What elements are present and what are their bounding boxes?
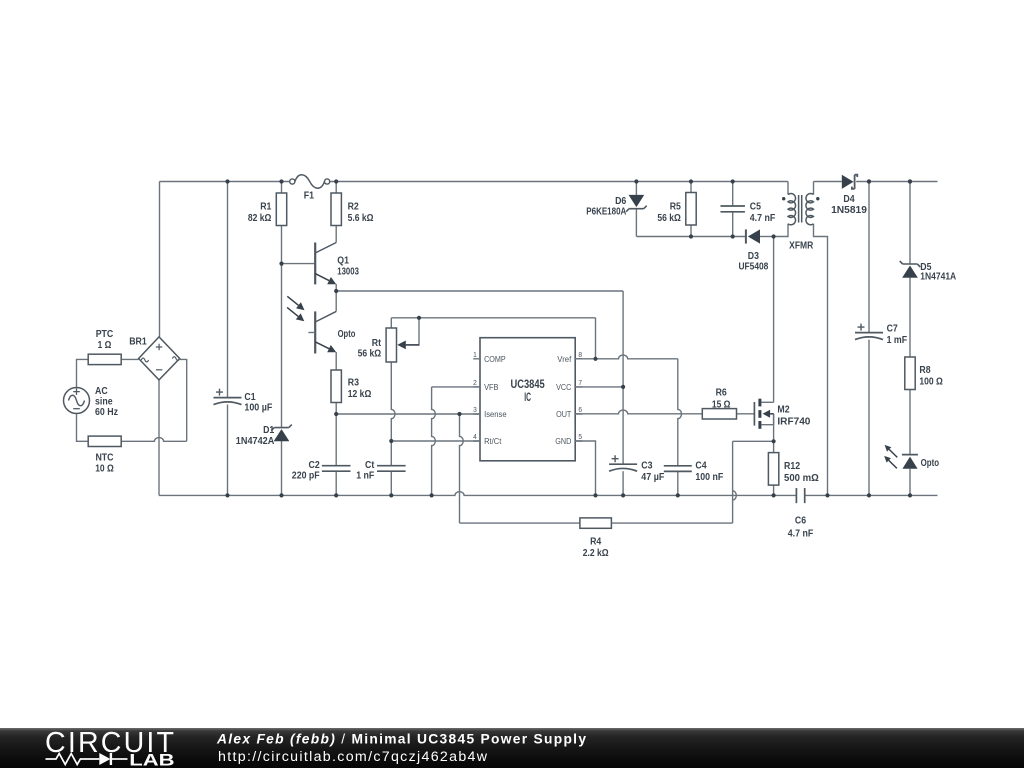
junction dot Rt wiper — [417, 316, 421, 320]
footer title — [216, 732, 586, 747]
resistor R2 — [331, 193, 374, 226]
resistor NTC — [88, 436, 121, 474]
transistor Q1 — [315, 243, 359, 285]
wire secondary top lead — [813, 182, 815, 195]
svg-text:C4: C4 — [695, 461, 707, 472]
wire Q1 emitter row — [336, 290, 623, 292]
svg-text:R6: R6 — [716, 387, 728, 398]
junction dot M2 source node — [772, 439, 776, 443]
svg-text:R8: R8 — [919, 365, 931, 376]
wire opto emitter to R3 — [335, 352, 337, 370]
wire C7 column — [868, 182, 870, 496]
pin 4 Rt/Ct — [473, 432, 502, 446]
wire BR1 bottom to bottom rail — [158, 380, 160, 496]
opto transistor — [308, 311, 355, 353]
zener diode D5 — [900, 261, 957, 282]
svg-text:1: 1 — [473, 350, 477, 359]
svg-text:100 µF: 100 µF — [244, 402, 272, 413]
svg-text:1N4742A: 1N4742A — [236, 436, 275, 447]
svg-text:http://circuitlab.com/c7qczj46: http://circuitlab.com/c7qczj462ab4w — [218, 749, 488, 765]
LED opto diode — [902, 455, 939, 470]
svg-text:7: 7 — [578, 378, 582, 387]
svg-text:M2: M2 — [777, 405, 790, 416]
svg-text:BR1: BR1 — [129, 337, 147, 348]
potentiometer Rt — [358, 328, 419, 362]
wire R1 to Q1 base — [282, 263, 316, 265]
zener diode D1 — [236, 425, 292, 447]
wire R2 leads — [335, 182, 337, 243]
svg-text:COMP: COMP — [484, 355, 506, 364]
svg-text:1 nF: 1 nF — [356, 470, 374, 481]
svg-text:R1: R1 — [260, 202, 272, 213]
svg-text:5.6 kΩ: 5.6 kΩ — [348, 213, 374, 224]
capacitor C4 — [664, 461, 724, 484]
svg-text:56 kΩ: 56 kΩ — [358, 349, 382, 360]
svg-text:82 kΩ: 82 kΩ — [248, 213, 272, 224]
wire R1 leads — [281, 182, 283, 264]
wire D3 anode to drain node — [760, 236, 774, 238]
svg-text:4: 4 — [473, 432, 477, 441]
junction dot VCC node — [621, 385, 625, 389]
svg-text:UC3845: UC3845 — [510, 379, 545, 391]
svg-text:XFMR: XFMR — [789, 241, 814, 252]
wire R4 riser to M2 source — [733, 441, 774, 523]
wire C3 bottom lead — [622, 471, 624, 495]
footer bar — [0, 728, 1024, 768]
wire C2 leads — [335, 414, 337, 495]
svg-text:1N5819: 1N5819 — [831, 205, 867, 216]
svg-text:LAB: LAB — [129, 751, 174, 768]
zener diode D6 — [586, 195, 646, 217]
resistor PTC — [88, 329, 121, 365]
svg-text:Opto: Opto — [338, 329, 356, 340]
wire bottom rail secondary side — [805, 494, 938, 496]
svg-text:Rt: Rt — [372, 338, 382, 349]
pin 3 Isense — [473, 405, 507, 419]
wire M2 drain column — [773, 237, 775, 403]
wire bottom rail primary side — [159, 492, 796, 496]
junction dots snubber row — [689, 234, 776, 238]
pin 1 COMP — [473, 350, 506, 364]
svg-text:1 Ω: 1 Ω — [98, 340, 112, 351]
svg-text:Vref: Vref — [557, 355, 572, 364]
pin 8 Vref — [557, 350, 582, 364]
wire Rt wiper link — [403, 318, 419, 345]
svg-text:D3: D3 — [748, 251, 760, 262]
wire R4 row — [460, 522, 733, 524]
capacitor C3 — [609, 455, 664, 483]
svg-text:R3: R3 — [348, 377, 360, 388]
svg-text:AC: AC — [95, 386, 108, 397]
svg-text:C1: C1 — [244, 392, 256, 403]
junction dot Q1 emitter node — [334, 289, 338, 293]
wire Isense row — [336, 413, 480, 415]
resistor R4 — [580, 518, 612, 559]
svg-text:P6KE180A: P6KE180A — [586, 206, 626, 217]
pin 5 GND — [555, 432, 582, 446]
wire M2 source to R12 — [773, 414, 775, 453]
wire OUT row — [575, 410, 702, 414]
svg-text:10 Ω: 10 Ω — [95, 463, 114, 474]
resistor R6 — [702, 387, 736, 419]
junction dots secondary top — [867, 179, 912, 183]
capacitor C1 — [214, 389, 273, 414]
svg-text:Isense: Isense — [484, 410, 507, 419]
diode D3 — [738, 229, 768, 272]
wire primary bottom lead — [774, 224, 788, 237]
junction dot RtCt node — [389, 439, 393, 443]
svg-text:C3: C3 — [641, 461, 653, 472]
LED light arrows — [884, 445, 897, 469]
svg-text:2.2 kΩ: 2.2 kΩ — [583, 548, 609, 559]
svg-text:PTC: PTC — [96, 329, 114, 340]
svg-text:D4: D4 — [843, 194, 855, 205]
svg-text:100 nF: 100 nF — [695, 472, 723, 483]
pin 6 OUT — [556, 405, 582, 419]
opto light arrows — [287, 296, 304, 321]
wire Isense to R4 column — [460, 414, 464, 523]
capacitor C7 — [855, 323, 907, 346]
svg-text:100 Ω: 100 Ω — [919, 376, 943, 387]
wire primary top lead — [787, 182, 789, 195]
wire top rail (AC bus) — [160, 181, 789, 183]
svg-text:C6: C6 — [795, 516, 807, 527]
fuse F1 — [290, 175, 330, 202]
svg-text:GND: GND — [555, 437, 571, 446]
svg-text:UF5408: UF5408 — [738, 262, 768, 273]
resistor R1 — [248, 193, 287, 226]
capacitor C6 — [788, 488, 813, 539]
svg-text:D1: D1 — [263, 425, 275, 436]
wire D5 R8 opto chain — [909, 182, 911, 496]
svg-text:R4: R4 — [590, 537, 602, 548]
svg-text:F1: F1 — [304, 191, 315, 202]
wire AC source to PTC — [77, 359, 89, 387]
svg-text:4.7 nF: 4.7 nF — [788, 528, 813, 539]
capacitor C2 — [292, 460, 351, 481]
svg-text:IC: IC — [524, 392, 531, 404]
junction dot Vref node — [593, 357, 597, 361]
svg-text:8: 8 — [578, 350, 582, 359]
svg-text:sine: sine — [95, 397, 113, 408]
svg-text:1N4741A: 1N4741A — [920, 271, 956, 282]
CircuitLab logo resistor-diode glyph — [46, 753, 128, 765]
resistor R5 — [657, 193, 696, 226]
svg-text:6: 6 — [578, 405, 582, 414]
wire NTC to BR1 right — [121, 359, 187, 441]
svg-text:15 Ω: 15 Ω — [712, 399, 731, 410]
transformer XFMR — [782, 193, 820, 251]
svg-text:R12: R12 — [784, 461, 800, 472]
wire snubber bottom row — [636, 236, 746, 238]
svg-text:13003: 13003 — [337, 267, 359, 278]
svg-text:IRF740: IRF740 — [777, 416, 810, 427]
svg-text:60 Hz: 60 Hz — [95, 407, 118, 418]
svg-text:OUT: OUT — [556, 410, 571, 419]
svg-text:Alex Feb (febb) / Minimal UC38: Alex Feb (febb) / Minimal UC3845 Power S… — [216, 732, 586, 747]
svg-text:C7: C7 — [887, 323, 899, 334]
junction dots bottom rail — [225, 493, 912, 497]
wire R5 leads — [690, 182, 692, 237]
svg-text:Rt/Ct: Rt/Ct — [484, 437, 502, 446]
svg-text:VCC: VCC — [556, 383, 571, 392]
wire Vref row to C4 — [575, 355, 681, 466]
svg-text:NTC: NTC — [95, 453, 113, 464]
wire GND pin to ground — [575, 441, 595, 495]
wire D1 column — [281, 264, 283, 496]
CircuitLab logo text — [45, 727, 174, 759]
transistor M2 IRF740 — [754, 399, 810, 429]
svg-text:C5: C5 — [750, 202, 762, 213]
op-amp U1 UC3845 IC box — [473, 338, 582, 461]
wire PTC to BR1 — [121, 358, 138, 360]
capacitor C5 — [720, 202, 775, 224]
junction dots top rail — [225, 179, 912, 183]
svg-text:VFB: VFB — [484, 383, 499, 392]
wire secondary return — [814, 224, 828, 496]
wire C1 column — [227, 182, 229, 496]
wire Rt-Vref row — [391, 318, 595, 359]
resistor R3 — [331, 370, 371, 403]
wire Rt top lead — [390, 318, 392, 328]
svg-text:R5: R5 — [670, 202, 682, 213]
junction dots Isense row — [334, 412, 462, 416]
AC source V1 — [64, 386, 119, 418]
wire R3 lead bottom — [335, 403, 337, 415]
svg-text:47 µF: 47 µF — [641, 472, 664, 483]
svg-text:1 mF: 1 mF — [887, 335, 908, 346]
svg-text:2: 2 — [473, 378, 477, 387]
svg-text:R2: R2 — [348, 202, 360, 213]
resistor R12 — [768, 453, 818, 486]
diode D4 schottky — [831, 175, 867, 217]
svg-text:Opto: Opto — [921, 458, 940, 469]
svg-text:500 mΩ: 500 mΩ — [784, 473, 819, 484]
wire left rail down to BR1 top — [159, 182, 161, 337]
pin 7 VCC — [556, 378, 582, 392]
wire VCC row — [575, 386, 623, 388]
resistor R8 — [905, 357, 943, 390]
svg-text:56 kΩ: 56 kΩ — [657, 213, 681, 224]
wire secondary top rail — [814, 181, 938, 183]
svg-text:Q1: Q1 — [337, 256, 349, 267]
wire R6 to gate — [737, 413, 755, 415]
svg-text:220 pF: 220 pF — [292, 470, 320, 481]
wire R12 bottom lead — [773, 485, 775, 495]
svg-text:3: 3 — [473, 405, 477, 414]
wire D6 leads — [635, 182, 637, 237]
wire Q1 emitter to opto collector — [335, 284, 337, 311]
wire Rt bottom / Ct column — [391, 362, 395, 495]
CircuitLab logo LAB — [129, 751, 174, 768]
pin 2 VFB — [473, 378, 499, 392]
svg-text:12 kΩ: 12 kΩ — [348, 389, 372, 400]
wire RtCt row — [391, 440, 480, 442]
bridge rectifier BR1 — [129, 337, 180, 380]
capacitor Ct — [356, 460, 405, 481]
wire C5 leads — [732, 182, 734, 237]
wire C4 bottom lead — [677, 471, 679, 495]
svg-text:D6: D6 — [615, 196, 627, 207]
footer url — [218, 749, 488, 765]
junction dot R1-Q1 base — [279, 262, 283, 266]
wire AC source to NTC — [77, 414, 89, 442]
wire VFB ground column — [432, 387, 480, 496]
svg-text:4.7 nF: 4.7 nF — [750, 213, 775, 224]
wire C3 column — [622, 291, 624, 464]
svg-text:5: 5 — [578, 432, 582, 441]
